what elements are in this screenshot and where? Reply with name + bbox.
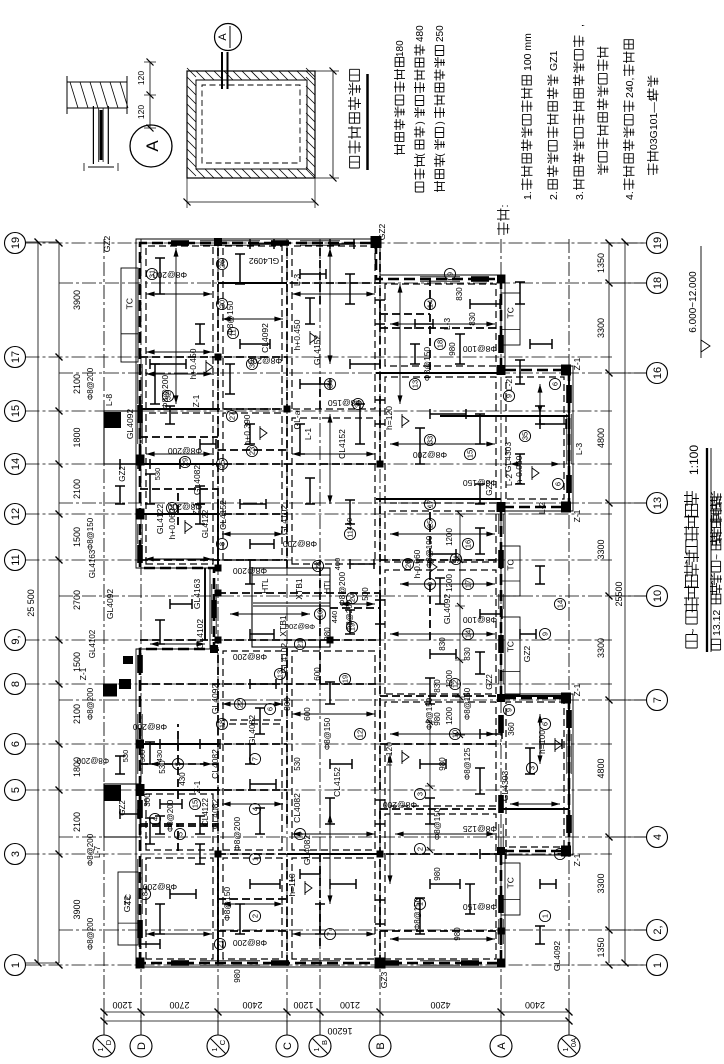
section detail dimension 120/120 — [149, 62, 151, 128]
svg-text:Φ8@150: Φ8@150 — [86, 517, 95, 550]
svg-text:2: 2 — [251, 914, 260, 918]
svg-text:25500: 25500 — [614, 581, 624, 606]
svg-text:GL4082: GL4082 — [247, 715, 257, 746]
svg-text:2100: 2100 — [72, 704, 82, 724]
svg-text:17: 17 — [426, 500, 435, 508]
svg-text:830: 830 — [455, 287, 464, 301]
svg-text:Φ8@200: Φ8@200 — [76, 756, 109, 765]
svg-text:Z-1: Z-1 — [78, 667, 88, 680]
svg-text:A: A — [143, 140, 162, 152]
svg-text:24: 24 — [168, 504, 177, 512]
svg-text:14: 14 — [10, 458, 22, 470]
svg-text:3300: 3300 — [596, 318, 606, 338]
svg-text:B: B — [375, 1042, 387, 1049]
svg-text:GL4092: GL4092 — [105, 589, 115, 620]
svg-text:30: 30 — [248, 360, 257, 368]
svg-text:15: 15 — [466, 450, 475, 458]
svg-text:CL4152: CL4152 — [218, 500, 228, 530]
svg-text:19: 19 — [341, 675, 350, 683]
svg-text:980: 980 — [448, 342, 457, 356]
svg-text:25: 25 — [426, 520, 435, 528]
svg-text:1: 1 — [251, 857, 260, 861]
svg-text:D: D — [136, 1042, 148, 1050]
svg-text:180: 180 — [395, 40, 406, 57]
svg-text:1200: 1200 — [445, 574, 454, 592]
svg-text:2700: 2700 — [72, 590, 82, 610]
svg-text:Φ8@200: Φ8@200 — [413, 450, 448, 460]
svg-text:CL4152: CL4152 — [332, 767, 342, 797]
svg-text:3: 3 — [10, 851, 22, 857]
balcony bay L-7 (axes 4-5) — [104, 784, 140, 837]
svg-text:L-2: L-2 — [504, 379, 514, 392]
top total dimension line 25 500 — [37, 242, 39, 963]
svg-text:CL4122: CL4122 — [201, 797, 210, 826]
svg-text:240,: 240, — [624, 78, 636, 98]
span arrows in rooms — [146, 351, 212, 353]
left total dimension line 16200 — [104, 1020, 569, 1022]
svg-text:0A: 0A — [569, 1038, 578, 1047]
svg-text:15: 15 — [10, 405, 22, 417]
svg-text:120: 120 — [136, 105, 146, 119]
svg-text:Φ8@200: Φ8@200 — [143, 882, 178, 892]
svg-text:9: 9 — [541, 632, 550, 636]
svg-text:Φ8@200: Φ8@200 — [283, 539, 318, 549]
svg-text:D: D — [104, 1039, 113, 1045]
svg-text:2100: 2100 — [340, 1000, 360, 1010]
svg-text:23: 23 — [248, 447, 257, 455]
left segment dimension line — [104, 1011, 569, 1013]
svg-text:Φ8@150: Φ8@150 — [422, 347, 432, 382]
axis bubbles bottom — [609, 964, 647, 966]
svg-text:): ) — [435, 121, 446, 124]
solid beam lines — [140, 283, 569, 963]
svg-text:1800: 1800 — [72, 427, 82, 447]
svg-text:120: 120 — [136, 71, 146, 85]
svg-text:530: 530 — [293, 757, 302, 771]
svg-text:A: A — [217, 33, 229, 41]
svg-text:3300: 3300 — [596, 539, 606, 559]
svg-text:360: 360 — [507, 722, 516, 736]
svg-text:11: 11 — [346, 530, 355, 538]
bottom total dimension line 25500 — [624, 242, 626, 963]
plan detail dashed rect — [202, 85, 300, 163]
circled slab numbers — [162, 390, 173, 401]
svg-text:28: 28 — [314, 562, 323, 570]
svg-text:6: 6 — [266, 707, 275, 711]
svg-text:7: 7 — [652, 697, 664, 703]
svg-text:3300: 3300 — [596, 638, 606, 658]
plan detail dimension lines — [187, 201, 315, 203]
drawing title 二~四层顶板结构布置平面图 1:100 — [686, 635, 697, 649]
svg-text:19: 19 — [10, 237, 22, 249]
level slope symbols — [206, 362, 213, 372]
svg-text:6: 6 — [554, 482, 563, 486]
svg-text:20: 20 — [348, 594, 357, 602]
svg-text:GL4092: GL4092 — [442, 594, 452, 625]
svg-text:GZ1: GZ1 — [548, 50, 560, 71]
svg-text:Z-1: Z-1 — [572, 509, 582, 522]
svg-text:25 500: 25 500 — [26, 589, 36, 617]
svg-text:Φ8@200: Φ8@200 — [232, 817, 242, 852]
svg-text:GL4102: GL4102 — [88, 629, 97, 658]
svg-text:HTL: HTL — [261, 578, 270, 594]
svg-text:35: 35 — [521, 432, 530, 440]
svg-text:Φ8@200: Φ8@200 — [86, 367, 95, 400]
svg-text:4200: 4200 — [430, 1000, 450, 1010]
svg-text:3900: 3900 — [72, 899, 82, 919]
section detail: hatched slab band — [67, 82, 127, 108]
svg-text:3.: 3. — [574, 191, 586, 200]
svg-text:14: 14 — [426, 300, 435, 308]
svg-text:A: A — [496, 1042, 508, 1050]
svg-text:2.: 2. — [548, 191, 560, 200]
svg-text:Z-1: Z-1 — [572, 853, 582, 866]
svg-text:21: 21 — [296, 640, 305, 648]
notes heading 说明： — [497, 209, 510, 236]
svg-text:HTL: HTL — [323, 578, 332, 594]
svg-text:Φ8@200: Φ8@200 — [86, 917, 95, 950]
svg-text:400: 400 — [333, 558, 342, 571]
svg-text:29: 29 — [181, 458, 190, 466]
svg-text:h+0.450: h+0.450 — [292, 319, 302, 350]
svg-text:TC: TC — [506, 641, 516, 652]
svg-text:Z-1: Z-1 — [572, 357, 582, 370]
svg-text:h=120: h=120 — [384, 406, 394, 430]
section cut mark A-A — [221, 52, 223, 89]
svg-text:GZ2: GZ2 — [122, 895, 132, 912]
svg-text:C: C — [218, 1039, 227, 1045]
internal dimension chain 980 — [429, 722, 431, 850]
svg-text:GZ3: GZ3 — [379, 971, 389, 988]
svg-text:980: 980 — [323, 627, 332, 641]
svg-text:Z-1: Z-1 — [192, 780, 202, 793]
svg-text:11: 11 — [10, 554, 22, 565]
svg-text:TC: TC — [125, 298, 135, 309]
svg-text:GL4082: GL4082 — [302, 835, 312, 866]
svg-text:GZ2: GZ2 — [102, 235, 112, 252]
svg-text:GL4102: GL4102 — [279, 505, 289, 536]
svg-text:h=100: h=100 — [537, 730, 547, 754]
svg-text:17: 17 — [10, 351, 22, 363]
svg-text:1350: 1350 — [596, 937, 606, 957]
svg-text:): ) — [415, 121, 426, 124]
svg-text:18: 18 — [652, 277, 664, 289]
svg-text:430: 430 — [155, 750, 164, 763]
annotation line 3 卫生间(坐式)现浇板反沿高250 — [434, 156, 445, 192]
svg-text:9,: 9, — [10, 635, 22, 644]
svg-text:16: 16 — [652, 367, 664, 379]
slab reinforcement bar symbols — [150, 364, 160, 404]
svg-text:1: 1 — [541, 914, 550, 918]
svg-text:GZ2: GZ2 — [377, 223, 387, 240]
svg-text:14: 14 — [556, 600, 565, 608]
svg-text:1: 1 — [312, 1047, 321, 1051]
axis grid dash-dot lines (letter axes A-D, horizontal in landscape) — [104, 238, 569, 1035]
svg-text:13: 13 — [411, 380, 420, 388]
plan detail inner rect — [196, 80, 307, 169]
svg-text:6: 6 — [10, 741, 22, 747]
svg-text:Φ8@200: Φ8@200 — [86, 687, 95, 720]
svg-text:19: 19 — [652, 237, 664, 249]
svg-text:2400: 2400 — [242, 1000, 262, 1010]
svg-text:h+0.450: h+0.450 — [188, 348, 198, 379]
svg-text:830: 830 — [433, 679, 442, 693]
svg-text:13: 13 — [652, 497, 664, 509]
svg-text:3: 3 — [416, 792, 425, 796]
svg-text:6.000~12.000: 6.000~12.000 — [688, 271, 699, 333]
svg-text:1350: 1350 — [596, 253, 606, 273]
svg-text:GL4092: GL4092 — [210, 684, 220, 715]
svg-text:B: B — [320, 1040, 329, 1045]
svg-text:TC: TC — [506, 307, 516, 318]
svg-text:25: 25 — [218, 460, 227, 468]
svg-text:GL4082: GL4082 — [210, 799, 220, 830]
svg-text:9: 9 — [505, 708, 514, 712]
note item 4 wrap — [647, 151, 659, 176]
section detail: upstand wall — [92, 106, 94, 164]
svg-text:1200: 1200 — [445, 528, 454, 546]
window lines on outer walls — [137, 859, 139, 914]
svg-text:13: 13 — [276, 670, 285, 678]
svg-text:GL4163: GL4163 — [88, 549, 97, 578]
svg-text:,: , — [574, 24, 586, 27]
svg-text:GL4092: GL4092 — [249, 256, 280, 266]
svg-text:26: 26 — [404, 560, 413, 568]
svg-text:4: 4 — [652, 834, 664, 840]
svg-text:Φ8@200: Φ8@200 — [233, 938, 268, 948]
svg-text:16200: 16200 — [327, 1026, 352, 1036]
svg-text:100 mm: 100 mm — [522, 33, 534, 71]
svg-text:2: 2 — [416, 847, 425, 851]
svg-text:16: 16 — [464, 540, 473, 548]
svg-text:CL4082: CL4082 — [292, 793, 302, 823]
svg-text:C: C — [282, 1042, 294, 1050]
detail name circle A — [130, 125, 172, 167]
svg-text:CL4092: CL4092 — [260, 323, 270, 353]
svg-text:Φ8@125: Φ8@125 — [463, 747, 472, 780]
svg-text:4.: 4. — [624, 191, 636, 200]
svg-text:10: 10 — [652, 590, 664, 602]
bottom segment dimension line — [608, 242, 610, 963]
svg-text:Φ8@125: Φ8@125 — [463, 824, 498, 834]
svg-text:2100: 2100 — [72, 374, 82, 394]
letter axis bubbles — [103, 1012, 105, 1035]
svg-text:TC: TC — [506, 877, 516, 888]
svg-text:800: 800 — [283, 697, 292, 711]
svg-text:13.12: 13.12 — [711, 610, 723, 636]
svg-text:830: 830 — [438, 637, 447, 651]
svg-text:1: 1 — [652, 962, 664, 968]
svg-text:~: ~ — [712, 554, 723, 560]
svg-text:8: 8 — [10, 681, 22, 687]
svg-text:2,: 2, — [652, 925, 664, 934]
note item 3 wrap — [597, 47, 609, 176]
svg-text:2400: 2400 — [525, 1000, 545, 1010]
svg-text:GZ2: GZ2 — [485, 674, 494, 690]
svg-text:3300: 3300 — [596, 873, 606, 893]
top segment dimension line — [58, 242, 60, 963]
svg-text:Φ8@100: Φ8@100 — [463, 344, 498, 354]
svg-text:GL4092: GL4092 — [552, 941, 562, 972]
svg-text:GL4092: GL4092 — [125, 409, 135, 440]
svg-text:1:100: 1:100 — [687, 445, 701, 475]
svg-text:Z-1: Z-1 — [572, 683, 582, 696]
svg-text:Φ8@150: Φ8@150 — [323, 717, 332, 750]
svg-text:2700: 2700 — [169, 1000, 189, 1010]
slab edge dashed outlines inside rooms — [146, 246, 564, 959]
svg-text:L-8: L-8 — [104, 394, 114, 407]
svg-text:TC: TC — [506, 559, 516, 570]
svg-text:3: 3 — [528, 766, 537, 770]
svg-text:980: 980 — [433, 867, 442, 881]
svg-text:18: 18 — [218, 720, 227, 728]
svg-text:1200: 1200 — [445, 707, 454, 725]
building outer wall (heavy dashed) — [140, 243, 569, 963]
svg-text:21: 21 — [216, 940, 225, 948]
annotation line 2 卫生间(跨式)现浇板反沿高480 — [414, 156, 425, 192]
annotation line 1 厨房现浇板反沿高180 — [394, 58, 405, 155]
svg-text:440: 440 — [330, 611, 339, 624]
axis bubbles top (1-19) — [5, 955, 26, 976]
svg-text:9: 9 — [446, 272, 455, 276]
building outer slab edge (thin solid) — [136, 239, 573, 967]
svg-text:4800: 4800 — [596, 428, 606, 448]
svg-text:7: 7 — [251, 757, 260, 761]
bay windows TC — [118, 872, 138, 945]
svg-text:1.: 1. — [522, 191, 534, 200]
svg-text:Φ8@200: Φ8@200 — [285, 622, 315, 631]
columns (black) — [136, 958, 145, 969]
svg-text:h-0.060: h-0.060 — [514, 455, 524, 484]
svg-text:830: 830 — [463, 647, 472, 661]
svg-text:19: 19 — [348, 623, 357, 631]
svg-text:5: 5 — [176, 832, 185, 836]
svg-text:12: 12 — [451, 680, 460, 688]
svg-text:2100: 2100 — [72, 479, 82, 499]
svg-text:L-3: L-3 — [574, 443, 584, 456]
svg-text:03G101—1: 03G101—1 — [648, 96, 660, 150]
svg-text:Φ8@200: Φ8@200 — [86, 833, 95, 866]
svg-text:12: 12 — [10, 508, 22, 520]
svg-text:Φ8@200: Φ8@200 — [383, 800, 418, 810]
svg-text:600: 600 — [313, 667, 322, 681]
svg-text:4800: 4800 — [596, 758, 606, 778]
svg-text:27: 27 — [228, 412, 237, 420]
axis grid dash-dot lines (numbered axes 1-19, vertical in landscape) — [26, 243, 647, 965]
svg-text:Φ8@200: Φ8@200 — [233, 652, 268, 662]
svg-text:4: 4 — [556, 852, 565, 856]
svg-text:GL4303: GL4303 — [503, 442, 513, 473]
svg-text:31: 31 — [148, 270, 157, 278]
svg-text:10: 10 — [316, 610, 325, 618]
svg-text:300: 300 — [143, 793, 152, 807]
svg-text:1: 1 — [10, 962, 22, 968]
svg-text:430: 430 — [178, 772, 187, 786]
svg-text:5: 5 — [10, 787, 22, 793]
svg-text:12: 12 — [356, 730, 365, 738]
svg-text:11: 11 — [229, 329, 238, 337]
svg-text:480: 480 — [415, 25, 426, 42]
staircase core XTB1 — [252, 568, 330, 647]
svg-text:GL4152: GL4152 — [312, 335, 322, 366]
svg-text:Φ8@150: Φ8@150 — [463, 687, 472, 720]
svg-text:15: 15 — [191, 800, 200, 808]
internal walls dashed — [140, 242, 501, 963]
svg-text:GZ2: GZ2 — [522, 645, 532, 662]
svg-text::: : — [499, 204, 511, 207]
svg-text:L-1: L-1 — [303, 428, 313, 441]
svg-text:26: 26 — [218, 260, 227, 268]
svg-text:250: 250 — [435, 25, 446, 42]
svg-text:~: ~ — [686, 628, 700, 635]
svg-text:32: 32 — [164, 392, 173, 400]
svg-text:980: 980 — [233, 969, 242, 983]
svg-text:18: 18 — [436, 340, 445, 348]
internal dimension chain 1200 — [459, 514, 461, 735]
svg-text:L-2: L-2 — [504, 474, 514, 487]
svg-text:500: 500 — [361, 587, 370, 601]
svg-text:1200: 1200 — [112, 1000, 132, 1010]
svg-text:2100: 2100 — [72, 812, 82, 832]
svg-text:h=110: h=110 — [287, 873, 297, 897]
figure caption 图13.12 某住宅二~四层楼层结构布置图 — [711, 639, 720, 650]
svg-text:9: 9 — [505, 394, 514, 398]
svg-text:33: 33 — [426, 436, 435, 444]
svg-text:1500: 1500 — [72, 527, 82, 547]
svg-text:1: 1 — [96, 1047, 105, 1051]
svg-text:8: 8 — [218, 542, 227, 546]
svg-text:XTB1: XTB1 — [294, 578, 304, 600]
svg-text:980: 980 — [433, 712, 442, 726]
plan detail of upstand (A-A): outer rect — [187, 71, 315, 178]
svg-text:Φ8@200: Φ8@200 — [168, 446, 203, 456]
detail caption 厨、卫反沿大样 — [348, 69, 361, 168]
svg-text:6: 6 — [551, 382, 560, 386]
svg-text:L-2: L-2 — [537, 502, 547, 515]
svg-text:1200: 1200 — [293, 1000, 313, 1010]
svg-text:GL4163: GL4163 — [192, 579, 202, 610]
svg-text:1: 1 — [210, 1047, 219, 1051]
svg-text:GL4122: GL4122 — [155, 504, 165, 535]
svg-text:Z-1: Z-1 — [191, 394, 201, 407]
wall pier solid chunks — [137, 920, 143, 938]
balcony bay L-8 (axes 14-15) — [104, 411, 140, 464]
plan detail hatching — [187, 68, 315, 178]
svg-text:Φ8@150: Φ8@150 — [463, 902, 498, 912]
svg-text:20: 20 — [218, 300, 227, 308]
svg-text:3900: 3900 — [72, 290, 82, 310]
